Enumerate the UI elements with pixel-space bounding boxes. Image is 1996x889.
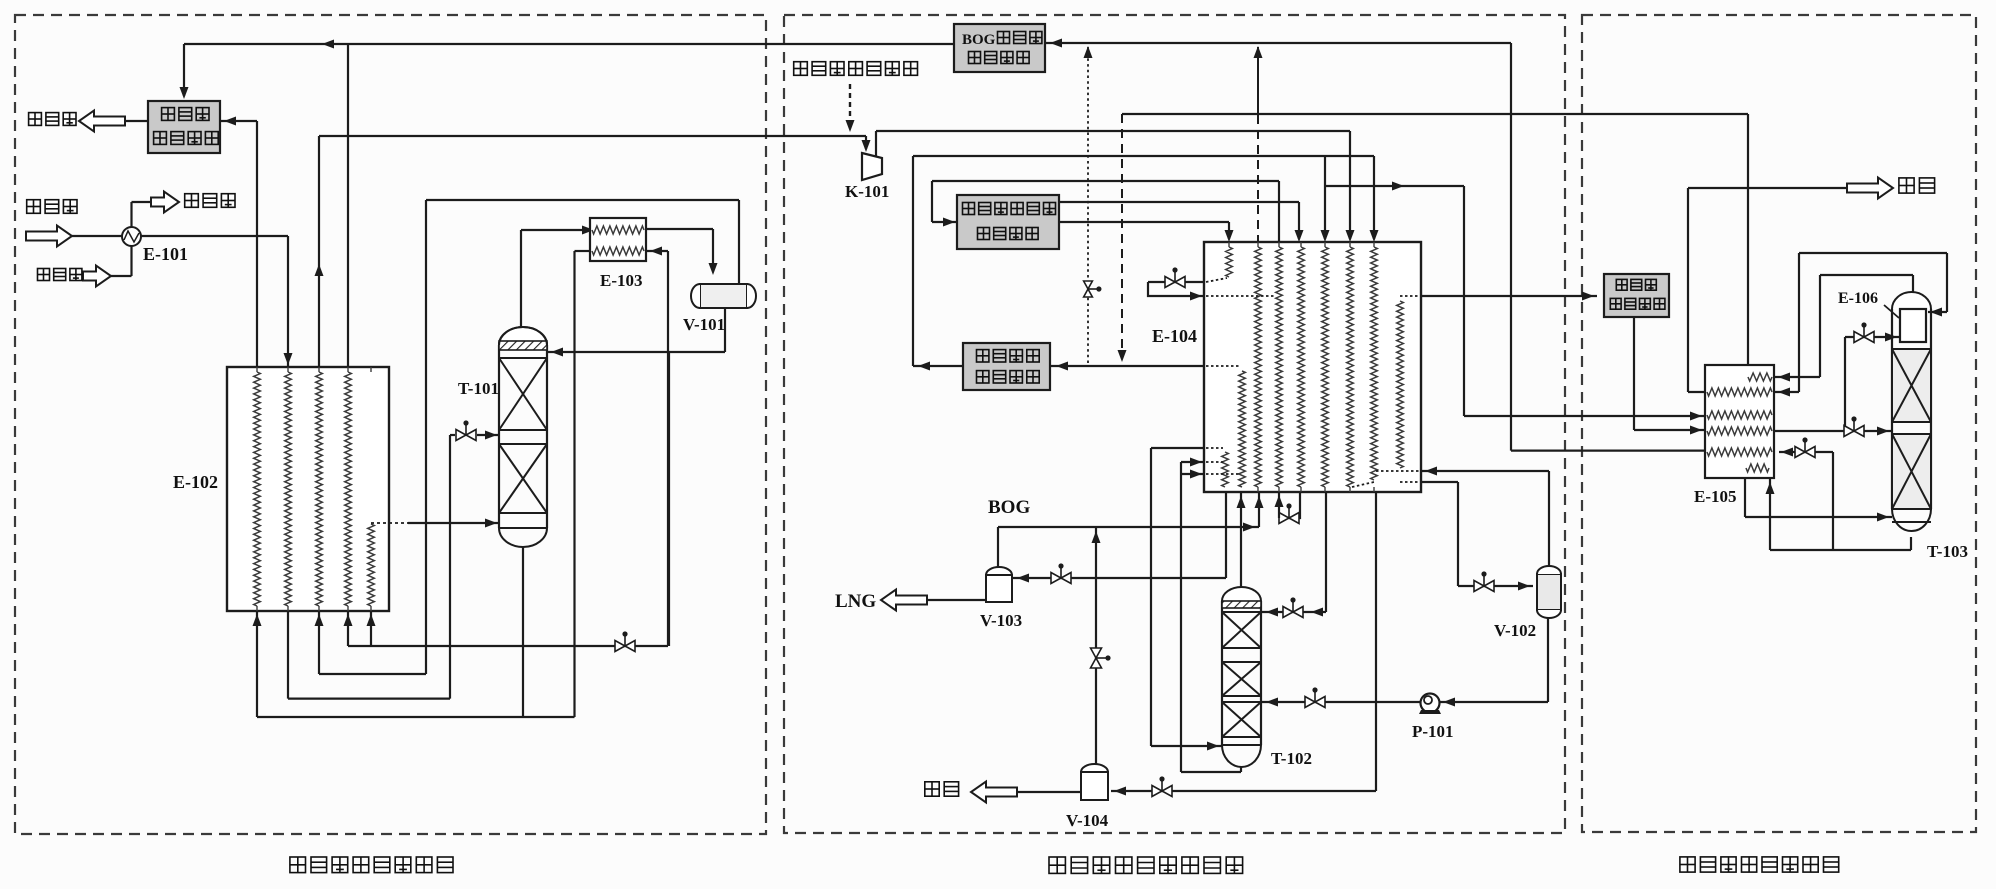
svg-text:T-102: T-102 (1271, 749, 1312, 768)
row4 coil E-105 (1707, 427, 1772, 435)
wire: stub into E-104 y462 (1181, 461, 1204, 463)
wire: V-101 header riser (425, 200, 427, 674)
vessel V-104 (1081, 764, 1108, 772)
coil in E-104 at x=1350 (1347, 247, 1354, 487)
vessel V-102 (1537, 574, 1561, 610)
wire: BOG unit to export-gas system header (184, 43, 954, 45)
svg-text:E-106: E-106 (1838, 290, 1878, 307)
column T-101 (499, 327, 547, 345)
svg-text:E-103: E-103 (600, 271, 643, 290)
wire: T-102 overhead to E-104 coil2b (1240, 492, 1242, 590)
svg-text:E-105: E-105 (1694, 487, 1737, 506)
wire: feed to E-101 (72, 235, 122, 237)
wire: branch to E-104 coil5 (1324, 156, 1326, 239)
wire: return header to BOG box (1045, 42, 1511, 44)
dashed border: helium recovery unit (1582, 15, 1976, 832)
text 闪蒸气 (1616, 279, 1656, 290)
wire: riser coil1 (256, 121, 258, 367)
text 混合冷剂制冷 (963, 203, 1056, 215)
wire: T-101 overhead riser (520, 230, 522, 327)
cooling water out (130, 202, 132, 227)
dashed border: liquefaction denitrogenation unit (784, 15, 1565, 833)
svg-text:V-104: V-104 (1066, 811, 1109, 830)
valve in U-loop (1279, 508, 1299, 524)
section title 高压提浓工艺装置 (290, 857, 453, 873)
wire: E-104 coil5 to T-102 reflux (1325, 492, 1327, 612)
wire: JT valve loop (1148, 281, 1204, 283)
svg-text:V-103: V-103 (980, 611, 1022, 630)
coil in E-104 at x=1301 (1298, 247, 1305, 487)
wire: flash booster to E-105 row4 (1633, 317, 1635, 430)
valve on V-103 feed (1051, 568, 1071, 584)
row3 coil E-105 (1707, 411, 1772, 419)
wire: E-104 to V-102 feed (1421, 481, 1458, 483)
hollow arrow LNG (881, 590, 927, 611)
wire: valve return line to E-103 (348, 645, 668, 647)
wire: T-103 bottoms stub (1910, 537, 1912, 550)
column T-102 (1222, 587, 1261, 601)
valve on V-102 feed (1474, 576, 1494, 592)
wire: E-104 coil drop to V-103 feed (1225, 492, 1227, 578)
coil in E-104 at x=1258 (1255, 247, 1262, 487)
wire: K-101 discharge riser (875, 131, 877, 157)
wire: LNG out of V-103 (919, 599, 986, 601)
pump P-101 (1421, 694, 1440, 713)
valve T-102 top feed (1283, 602, 1303, 618)
svg-text:BOG: BOG (962, 32, 996, 48)
wire: V-103 feed line (1012, 577, 1226, 579)
arrow up on coil3 riser (315, 264, 324, 276)
wire: N2 suction riser (912, 156, 914, 366)
wire: coil3 bottom stub (318, 611, 320, 674)
dotted stub to right edge y482 (1400, 481, 1421, 483)
wire: drop into E-105 row1 (1747, 114, 1749, 377)
svg-text:T-103: T-103 (1927, 542, 1968, 561)
svg-text:E-102: E-102 (173, 472, 218, 492)
wire: V-104 vapor riser (1095, 527, 1097, 766)
dotted: E-102 coil5 to T-101 feed (371, 522, 408, 524)
wire: V-102 vapor return (1548, 471, 1550, 566)
wire: coil2 bottom down (287, 611, 289, 699)
valve E-106 feed (1854, 327, 1874, 343)
plate-fin heat exchanger E-102 (227, 367, 389, 611)
box: BOG and tail gas compression 装置 (954, 24, 1045, 72)
wire: stub into E-104 y448 (1151, 447, 1204, 449)
wire: N2 unit line to E-104 (913, 155, 1374, 157)
wire: down into export compression box (183, 44, 185, 96)
wire: long drop from header to E-105 row5 line (1510, 43, 1512, 451)
wire: overhead down to E-105 row1 (1819, 275, 1821, 377)
wire: tee riser from valve line to V-101 bottoms line (668, 352, 670, 646)
wire: T-101 bottoms down (522, 547, 524, 717)
hollow arrow to export (79, 111, 125, 132)
text 粗氦 (1899, 178, 1935, 193)
wire: drop into K-101 (865, 136, 867, 149)
wire: liquid N2 out (1015, 791, 1081, 793)
coil in E-102 at x=371 (368, 524, 375, 606)
wire: E-103 row1 out to V-101 (646, 228, 713, 230)
row2 coil E-105 (1707, 388, 1772, 396)
text 增压装置 (977, 371, 1040, 383)
dotted stub JT return (1206, 295, 1276, 297)
text 增压装置 (978, 228, 1039, 240)
wire: feed to E-106 (1845, 336, 1900, 338)
coil in E-104 at x=1400 (1397, 301, 1404, 468)
dotted line: flash gas to BOG header (1087, 47, 1089, 366)
text 及尾气 (998, 32, 1042, 44)
coil row2 in E-103 (592, 247, 644, 255)
plate-fin heat exchanger E-104 (1204, 242, 1421, 492)
dotted stub coil1 to JT valve (1206, 278, 1227, 282)
wire: E-105 row4 to T-103 mid (1774, 430, 1892, 432)
valve T-101 upper feed (456, 425, 476, 441)
section title 液化及脱氮工艺装置 (1049, 857, 1243, 873)
svg-text:V-102: V-102 (1494, 621, 1536, 640)
wire: E-101 out to E-102 coil2 (141, 235, 288, 237)
svg-text:T-101: T-101 (458, 379, 499, 398)
wire: loop down to E-105 row2 (1798, 253, 1800, 392)
dotted stub y448 (1206, 447, 1223, 449)
dotted stub y474 (1206, 473, 1240, 475)
svg-text:BOG: BOG (988, 497, 1030, 518)
wire: vertical linking stubs and T-102 bottoms (1180, 462, 1182, 772)
text 另一套浓缩装置 (794, 62, 918, 76)
pointer line E-106 (1884, 305, 1899, 318)
box: N2 refrigeration compression 氮气制冷增压装置 (963, 343, 1050, 390)
wire: coil5 bottom stub (370, 611, 372, 646)
column T-103 (1892, 292, 1931, 309)
wire: K-101 discharge header (876, 130, 1350, 132)
wire: BOG riser into E-104 coil3 (1258, 492, 1260, 527)
wire: drop to E-104 coil6 (1349, 131, 1351, 239)
wire: riser to T-101 feed valve (449, 435, 451, 699)
wire: overhead to E-103 row1 (521, 229, 590, 231)
compressor K-101 (862, 153, 882, 180)
coil row1 in E-103 (592, 226, 644, 234)
box: flash gas compression 闪蒸气增压装置 (1604, 274, 1669, 317)
wire: coil1 bottom loop (256, 611, 258, 717)
dashed: BOG through E-104 coil to header (1257, 115, 1259, 242)
wire: BOG riser solid part (1257, 47, 1259, 115)
svg-text:P-101: P-101 (1412, 722, 1454, 741)
arrow on header flow left (322, 40, 334, 49)
heat exchanger E-103 (590, 218, 646, 261)
dashed border: high pressure enrichment unit (15, 15, 766, 834)
text 增压系统 (154, 132, 219, 145)
coil in E-102 at x=257 (254, 372, 261, 606)
valve on E-103 return line (615, 636, 635, 652)
valve on P-101 discharge (1305, 692, 1325, 708)
small valve on dotted line (1084, 281, 1098, 297)
arrow into T-101 top (551, 348, 563, 357)
wire: crude He riser from E-105 row2 (1687, 188, 1689, 392)
wire: T-102 bottoms stub (1240, 766, 1242, 772)
row5 coil E-105 (1707, 448, 1772, 456)
wire: riser to E-103 row2 right (667, 251, 669, 646)
valve on bottoms return (1795, 442, 1815, 458)
wire: to E-105 row3 (1464, 415, 1705, 417)
text 氮气制冷 (977, 350, 1040, 362)
text 液氮 (925, 782, 959, 796)
valve on V-104 riser (1091, 648, 1107, 668)
wire: V-101 bottoms (724, 308, 726, 352)
wire: E-103 row2-left descender (573, 251, 575, 717)
coil in E-104 at x=1279 (1276, 247, 1283, 487)
svg-text:E-104: E-104 (1152, 326, 1197, 346)
text 增压装置 (969, 52, 1030, 64)
wire: MR discharge 1 (1059, 201, 1299, 203)
dotted stub y462 (1206, 461, 1223, 463)
dotted stub to coil2b top (1206, 365, 1240, 367)
wire: coil4 bottom stub (347, 611, 349, 646)
wire: bottoms to E-105 row5 (1779, 451, 1833, 453)
row6 coil E-105 (1746, 464, 1769, 472)
coil in E-104 at x=1229 (1226, 247, 1233, 277)
wire: into E-105 row5 (1511, 450, 1705, 452)
dashed: helium section return to N2 line (1121, 114, 1123, 358)
wire: stub into E-104 y474 (1181, 473, 1204, 475)
row1 coil E-105 (1748, 373, 1772, 381)
text 增压装置 (1610, 298, 1665, 309)
wire: bottoms riser into E-105 row6 (1769, 478, 1771, 550)
wire: branch from T-103 feed line (1844, 337, 1846, 431)
wire: coil3 riser to K-101 suction (319, 135, 866, 137)
wire: coil4 riser vertical to header (347, 44, 349, 367)
box: mixed refrigerant compression 混合冷剂制冷增压装置 (957, 195, 1059, 249)
section title 氦气回收工艺装置 (1680, 857, 1839, 872)
coil in E-102 at x=348 (345, 372, 352, 606)
coil in E-102 at x=288 (285, 372, 292, 606)
valve JT at E-104 left (1165, 272, 1185, 288)
heat exchanger E-101 (122, 227, 141, 246)
text 原料气 (27, 200, 77, 214)
wire: flash gas to booster box (1421, 295, 1597, 297)
wire: T-103 overhead (1912, 275, 1914, 292)
wire: MR discharge 2 (1059, 221, 1229, 223)
wire: coil3 riser vertical (318, 136, 320, 367)
coil in E-104 at x=1242 (1239, 371, 1246, 487)
wire: E-102 coil1 to export box (220, 120, 257, 122)
svg-text:E-101: E-101 (143, 244, 188, 264)
text 去外输 (29, 113, 76, 126)
wire: E-106 outlet loop (1946, 253, 1948, 312)
dotted stub to right edge y471 (1376, 470, 1421, 472)
valve on V-104 feed (1152, 781, 1172, 797)
wire: crude He product line (1688, 187, 1849, 189)
wire: E-104 coil8 drop to V-104 (1375, 492, 1377, 791)
wire: into V-104 (1111, 790, 1376, 792)
valve T-103 mid feed (1844, 421, 1864, 437)
internal condenser E-106 (1900, 309, 1926, 342)
wire: long drop to T-102 lower feed (1150, 448, 1152, 746)
text 外输气 (162, 108, 209, 121)
hollow arrow crude helium (1847, 178, 1893, 199)
dotted stub coil9 top to flash line (1400, 295, 1421, 297)
small coil bottom-left E-104 (1222, 452, 1229, 487)
vessel V-103 (986, 567, 1012, 575)
wire: reboiler return drop (1744, 478, 1746, 517)
svg-text:V-101: V-101 (683, 315, 725, 334)
coil in E-104 at x=1325 (1322, 247, 1329, 487)
plate-fin heat exchanger E-105 (1705, 365, 1774, 478)
svg-text:LNG: LNG (835, 591, 876, 612)
hollow arrow liquid nitrogen (971, 782, 1017, 803)
feedgas inlet 原料气 (26, 226, 72, 247)
wire: P-101 discharge to T-102 (1262, 701, 1421, 703)
text 冷却水 out (185, 194, 235, 208)
wire: E-104 to N2 box suction (1050, 365, 1205, 367)
text 冷却水 in (38, 269, 82, 281)
wire: V-102 bottoms to P-101 (1439, 701, 1548, 703)
vessel V-101 (horizontal drum) (700, 284, 747, 308)
dotted stub bottom (1352, 482, 1374, 487)
outlet arrow 去外输 (121, 120, 148, 122)
svg-text:K-101: K-101 (845, 182, 889, 201)
wire: header over E-103 to V-101 (426, 199, 739, 201)
wire: branch to helium section (1325, 185, 1464, 187)
box: export gas compression system 外输气增压系统 (148, 101, 220, 153)
wire: BOG header from V-103 (998, 526, 1259, 528)
wire: feed to T-101 bottom section (408, 522, 499, 524)
wire: MR suction from E-104 coil3 (932, 180, 1279, 182)
coil in E-102 at x=319 (316, 372, 323, 606)
wire: U-loop under E-104 (1279, 492, 1300, 518)
cooling water in (83, 266, 111, 287)
coil in E-104 at x=1374 (1371, 247, 1378, 480)
wire: y=114 cross line to helium section (1122, 113, 1748, 115)
